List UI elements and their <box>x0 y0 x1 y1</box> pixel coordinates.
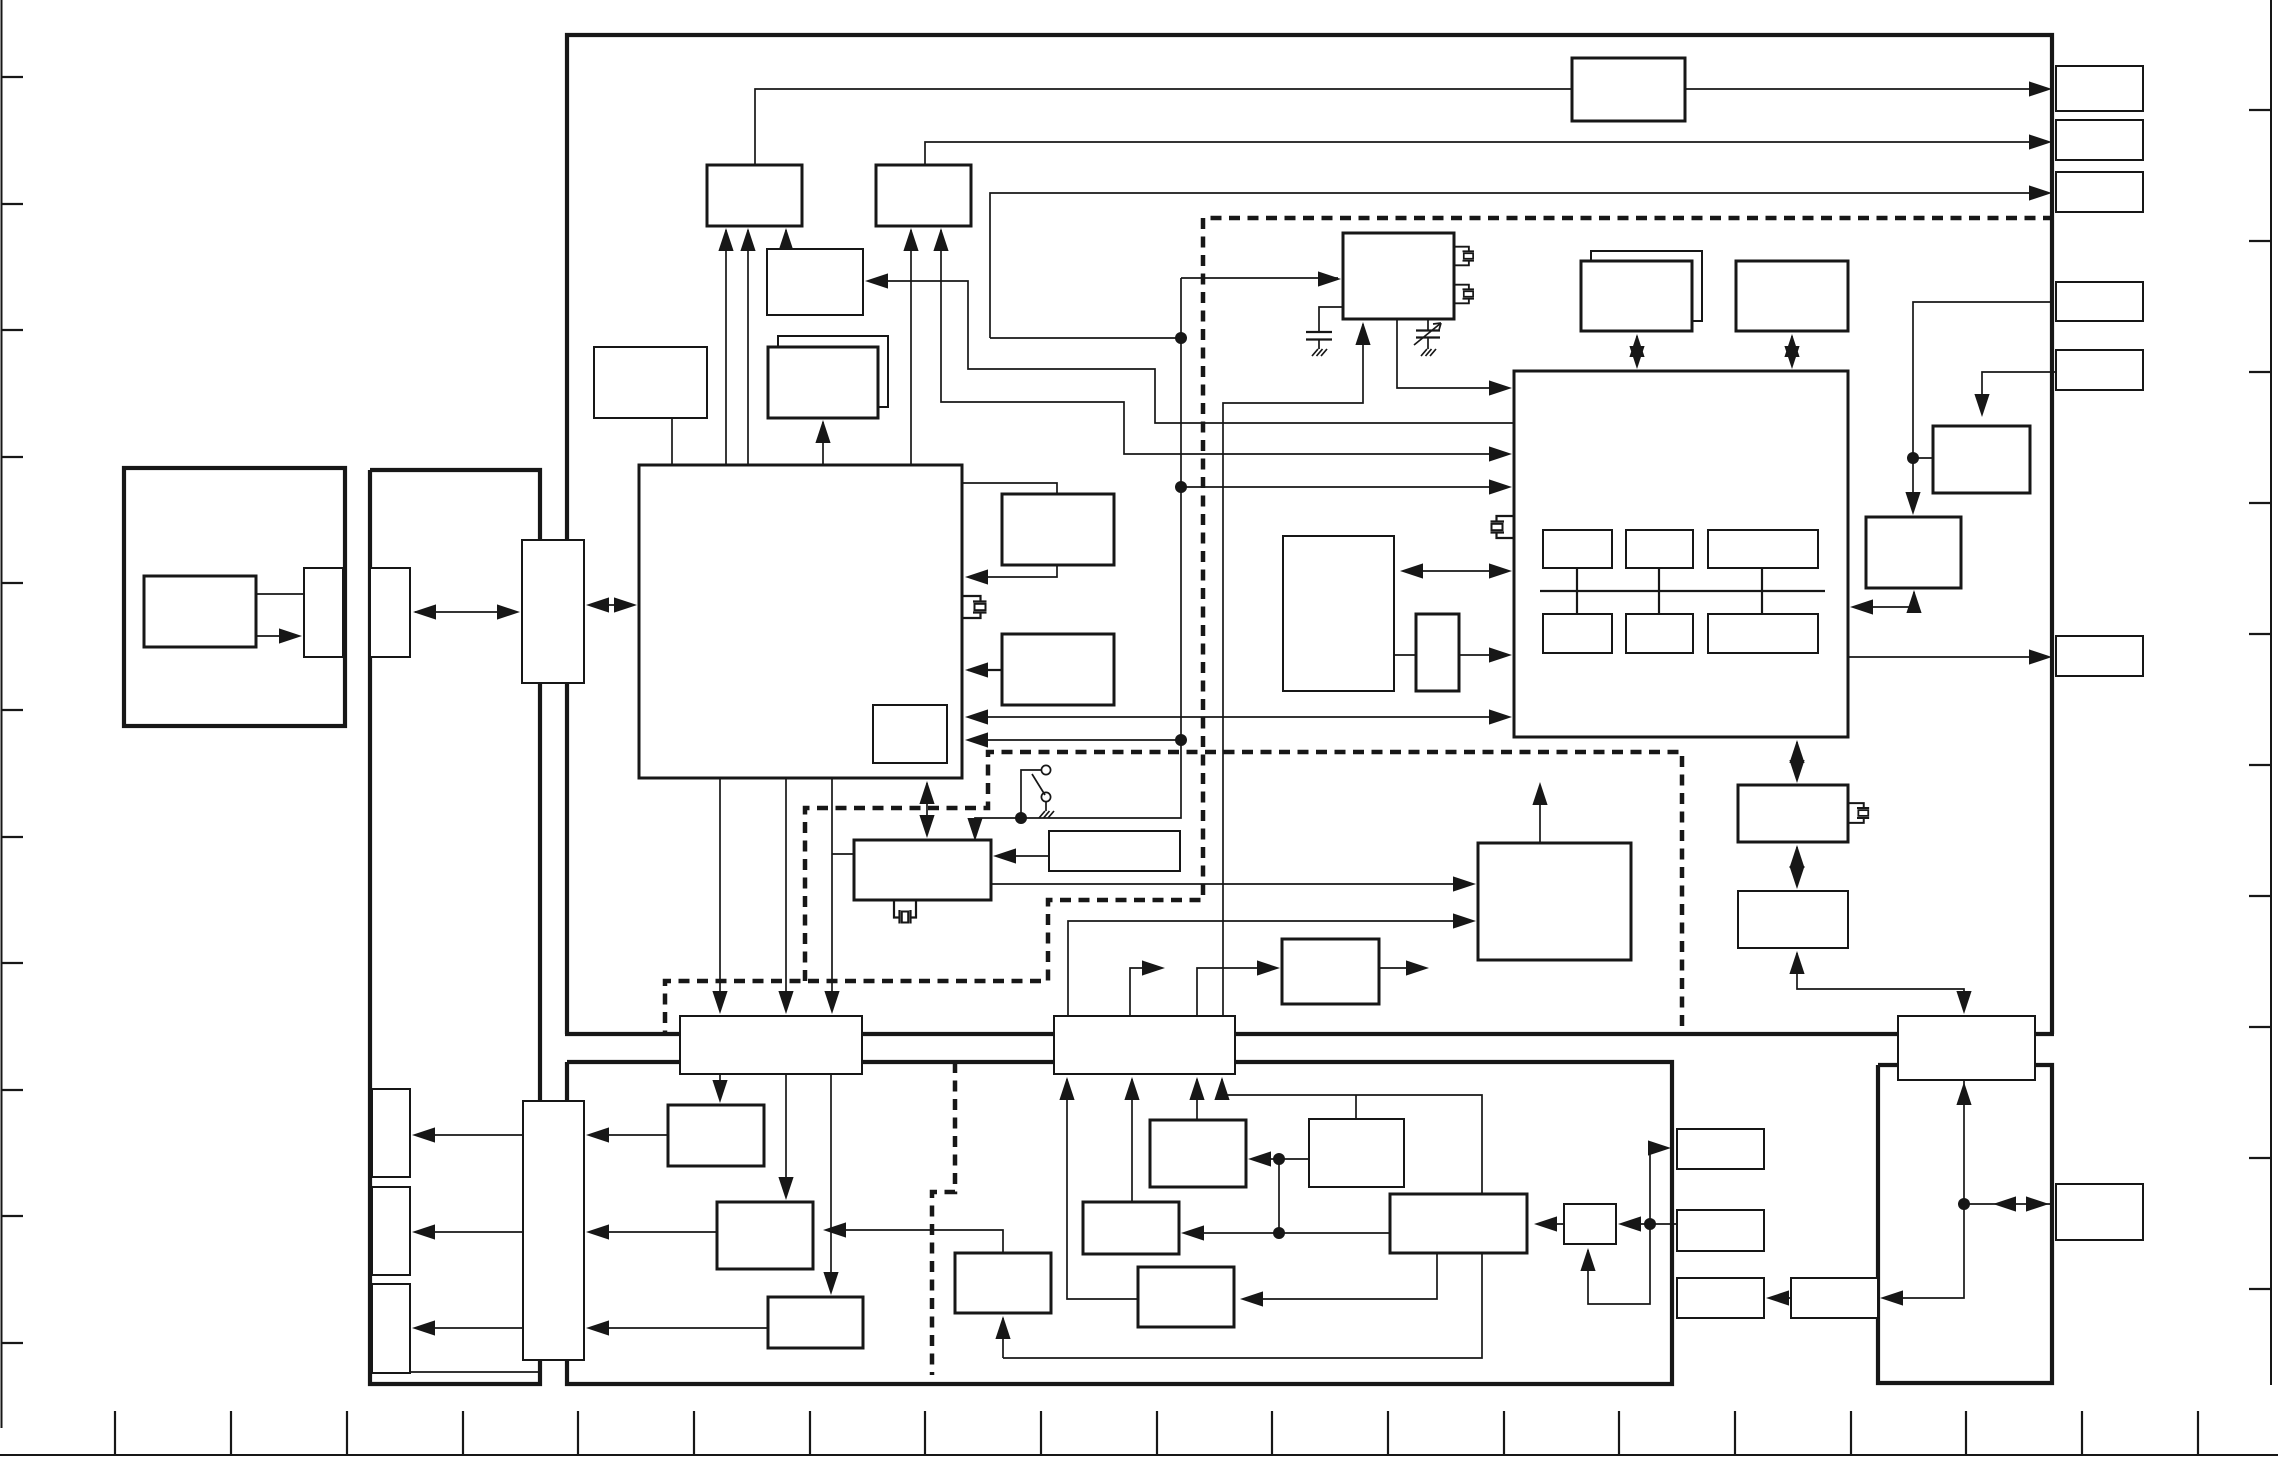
wire connector CN2 to power regulator <box>1068 913 1476 1016</box>
CPU sub block box <box>873 705 947 763</box>
wire standby transformer to connector CN2 <box>1189 1077 1204 1120</box>
wire connector CN1 to P1 regulator <box>712 1074 727 1103</box>
internal bus line <box>1540 590 1825 592</box>
wire band select junction to CPU <box>965 732 1181 747</box>
wire mains connector to AC inlet c <box>412 1320 523 1335</box>
connector out E <box>2056 350 2143 390</box>
wire CPU bottom to connector CN1 pin2 <box>778 778 793 1014</box>
sub block B decode <box>1708 530 1818 568</box>
net tuning voltage vertical with branches <box>967 271 1341 841</box>
connector CN1 <box>680 1016 862 1074</box>
wire degauss relay output arrow <box>1379 960 1429 975</box>
EEPROM box <box>768 347 878 418</box>
regulator P2 box <box>717 1202 813 1269</box>
wire video out buffer to CRT board <box>1766 1290 1791 1305</box>
wire P5 box to P2 regulator <box>823 1222 1003 1253</box>
wire secondary rail Q3 to Q4 <box>1181 1225 1390 1240</box>
front AV board outline <box>370 470 540 1384</box>
wire connector CN1 to P2 regulator <box>778 1074 793 1200</box>
OSD generator box <box>1002 494 1114 565</box>
wire bus C junction to tuner AGC node <box>990 337 1181 339</box>
wire power switch branch <box>1021 770 1041 818</box>
wire IF amp to video processor bidirectional <box>1400 563 1512 578</box>
sub block R decode <box>1543 530 1612 568</box>
AC inlet box a <box>372 1089 410 1177</box>
remote transmitter box <box>144 576 256 647</box>
wire IR receiver to main connector bidirectional <box>413 604 520 619</box>
audio amp resonator X2 <box>894 900 916 924</box>
junction feedback node <box>1644 1218 1656 1230</box>
chopper IC box <box>1309 1119 1404 1187</box>
junction CRT board node <box>1958 1198 1970 1210</box>
wire connector CN1 to P3 regulator <box>823 1074 838 1295</box>
wire OSD box to CPU top link <box>963 483 1057 494</box>
wire P1 to mains connector <box>586 1127 668 1142</box>
main transformer box <box>1390 1194 1527 1253</box>
video chroma processor box <box>1514 371 1848 737</box>
memory2 box <box>1736 261 1848 331</box>
wire CRT board internal net <box>1880 1080 1972 1306</box>
audio select box <box>767 249 863 315</box>
wire video out bus A to connector <box>755 81 2052 165</box>
main board outline <box>565 35 2054 1034</box>
wire feedback from connector U2 to Q5 <box>1618 1216 1677 1231</box>
wire video processor to connector out E <box>1848 649 2052 664</box>
connector out G <box>2056 1184 2143 1240</box>
wire video processor to sync sep double arrow <box>1789 740 1804 783</box>
wire CRT board to connector out G bidirectional <box>1964 1196 2051 1211</box>
sync sep resonator X4 <box>1848 803 1869 823</box>
RF modulator box <box>1572 58 1685 121</box>
wire tuner 33V supply from connector CN2 <box>1223 322 1371 1021</box>
sub block G matrix <box>1626 614 1693 653</box>
regulator P7 box <box>1138 1267 1234 1327</box>
wire SAW filter to video processor <box>1459 647 1512 662</box>
wire key input box to CPU <box>965 662 1002 677</box>
video processor crystal X3 <box>1491 516 1515 538</box>
wire error amp branch down <box>1278 1159 1280 1233</box>
frame left border line <box>1 0 23 1428</box>
IF amp box <box>1283 536 1394 691</box>
wire IF amp to SAW filter <box>1394 654 1416 656</box>
junction H drive node <box>1907 452 1919 464</box>
wire connector out D to H-out box arrow <box>1974 372 2056 417</box>
frame right border line <box>2249 0 2271 1385</box>
V out box <box>1866 517 1961 588</box>
SAW filter box <box>1416 614 1459 691</box>
wire AV switch to video processor input <box>933 228 1512 462</box>
IR receiver box <box>370 568 410 657</box>
wire tuner IF out to video processor <box>1397 319 1512 396</box>
tuner decoupling capacitor C1 <box>1306 307 1343 356</box>
wire CPU to audio amp double arrow <box>919 781 934 838</box>
frame bottom border line <box>0 1411 2278 1455</box>
wire main transformer Q4 to connector CN2 <box>1214 1077 1482 1194</box>
junction AGC node <box>1175 332 1187 344</box>
photocoupler box <box>1564 1204 1616 1244</box>
key input box <box>1002 634 1114 705</box>
sub block G decode <box>1626 530 1693 568</box>
connector out F <box>2056 636 2143 676</box>
connector CN2 <box>1054 1016 1235 1074</box>
wire flyback feed to deflection box and CRT connector <box>1789 951 1971 1014</box>
degauss relay box <box>1282 939 1379 1004</box>
wire AC inlet c ground strap <box>410 1371 540 1373</box>
wire rectifier Q3 to connector CN2 <box>1124 1077 1139 1202</box>
wire video processor to audio select box <box>865 273 1514 423</box>
H out box <box>1933 426 2030 493</box>
power regulator box <box>1478 843 1631 960</box>
heater supply P5 box <box>955 1253 1051 1313</box>
wire connector CN2 to degauss relay <box>1197 960 1280 1016</box>
connector CN3 CRT <box>1898 1016 2035 1080</box>
wire CPU to EEPROM arrow <box>815 420 830 465</box>
junction switch node <box>1015 812 1027 824</box>
connector out B <box>2056 120 2143 160</box>
inter-board connector CN5 <box>522 540 584 683</box>
wire audio amp to power regulator <box>991 876 1476 891</box>
connector out A <box>2056 66 2143 111</box>
dashed isolation boundary power board <box>932 1062 955 1375</box>
memory1 box <box>1581 261 1692 331</box>
junction secondary rail node <box>1273 1227 1285 1239</box>
video buffer box V <box>1791 1278 1878 1318</box>
audio amp box <box>854 840 991 900</box>
wire remote transmitter to emitter top <box>256 593 304 595</box>
tuner trimmer capacitor VC1 <box>1414 319 1441 356</box>
connector out U1 <box>1677 1129 1764 1169</box>
remote control unit outline <box>124 468 345 726</box>
deflection drive box <box>1738 891 1848 948</box>
junction error amp node <box>1273 1153 1285 1165</box>
wire connector CN2 stub arrow <box>1130 960 1165 1016</box>
regulator P3 box <box>768 1297 863 1348</box>
wire P2 to mains connector <box>586 1224 717 1239</box>
standby transformer box <box>1150 1120 1246 1187</box>
wire H-drive junction down to V-out box arrow <box>1905 458 1920 515</box>
wire sync sep to deflection box double arrow <box>1789 845 1804 889</box>
headphone jack box <box>707 165 802 226</box>
wire feedback junction up to connector U1 <box>1648 1140 1671 1224</box>
sub block B matrix <box>1708 614 1818 653</box>
wire mute box to audio amp <box>993 848 1049 863</box>
rectifier box <box>1083 1202 1179 1254</box>
wire CPU I2C bus to video processor bidirectional <box>965 709 1512 724</box>
CPU crystal X1 <box>963 596 987 618</box>
wire photocoupler Q5 to Q4 <box>1534 1216 1564 1231</box>
tuner resonator Xb <box>1454 285 1474 304</box>
wire feedback junction to Q5 bottom <box>1580 1224 1650 1304</box>
wire P7 to connector CN2 return <box>1059 1077 1138 1299</box>
dashed tuner shield boundary <box>665 218 2054 1033</box>
wire error amp chain Q1 Q2 <box>1248 1151 1309 1166</box>
wire AGC junction to video processor <box>1181 479 1512 494</box>
connector out D <box>2056 282 2143 321</box>
CRT socket board outline <box>1878 1065 2052 1383</box>
connector out C <box>2056 172 2143 212</box>
regulator P1 box <box>668 1105 764 1166</box>
power switch S1 <box>1032 765 1054 818</box>
wire memory2 to video processor double arrow <box>1784 334 1799 369</box>
wire Q4 bottom to P7 regulator <box>1240 1253 1437 1307</box>
AC inlet box b <box>372 1187 410 1275</box>
wire CPU to headphone box arrows <box>718 228 755 465</box>
wire CPU bottom to connector CN1 pin3 with amp branch <box>824 778 854 1014</box>
wire CPU to main connector bidirectional <box>586 597 637 612</box>
wire reset box to CPU <box>671 418 673 465</box>
sub block R matrix <box>1543 614 1612 653</box>
power board outline <box>567 1062 1672 1384</box>
EEPROM shadow box <box>778 336 888 407</box>
wire connector out C to H-drive chain <box>1913 302 2054 453</box>
wire OSD box to CPU arrow <box>965 565 1057 585</box>
memory1 shadow box <box>1591 251 1702 321</box>
reset IC box <box>594 347 707 418</box>
connector out U3 <box>1677 1278 1764 1318</box>
IR emitter box <box>304 568 343 657</box>
wire power regulator standby output <box>1532 782 1547 843</box>
sync separator box <box>1738 785 1848 842</box>
tuner box <box>1343 233 1454 319</box>
wire audio out bus B to connector <box>925 134 2052 165</box>
wire CPU bottom to connector CN1 pin1 <box>712 778 727 1014</box>
mute box <box>1049 831 1180 871</box>
wire CPU to AV switch box arrow <box>903 228 918 465</box>
main CPU box <box>639 465 962 778</box>
wire mains connector to AC inlet b <box>412 1224 523 1239</box>
junction band select node <box>1175 734 1187 746</box>
sub block bus stubs <box>1577 568 1762 614</box>
mains connector CN4 <box>523 1101 584 1360</box>
wire remote transmitter to emitter arrow <box>256 628 302 643</box>
wire memory1 to video processor double arrow <box>1629 334 1644 369</box>
wire P3 to mains connector <box>586 1320 768 1335</box>
wire RGB bus C to connector <box>990 185 2052 338</box>
wire heater supply to P5 box <box>995 1253 1482 1358</box>
wire audio select to headphone box <box>778 228 793 251</box>
dashed primary power boundary <box>805 752 1682 1033</box>
wire H-drive junction to H-out box <box>1913 457 1933 459</box>
wire chopper Q2 to supply rail <box>1355 1095 1357 1119</box>
AC inlet box c <box>372 1284 410 1373</box>
AV output jack box <box>876 165 971 226</box>
tuner resonator Xa <box>1454 247 1474 266</box>
wire V-out box to video processor sync <box>1850 590 1922 615</box>
wire mains connector to AC inlet a <box>412 1127 523 1142</box>
junction AGC to video node <box>1175 481 1187 493</box>
connector out U2 <box>1677 1210 1764 1251</box>
